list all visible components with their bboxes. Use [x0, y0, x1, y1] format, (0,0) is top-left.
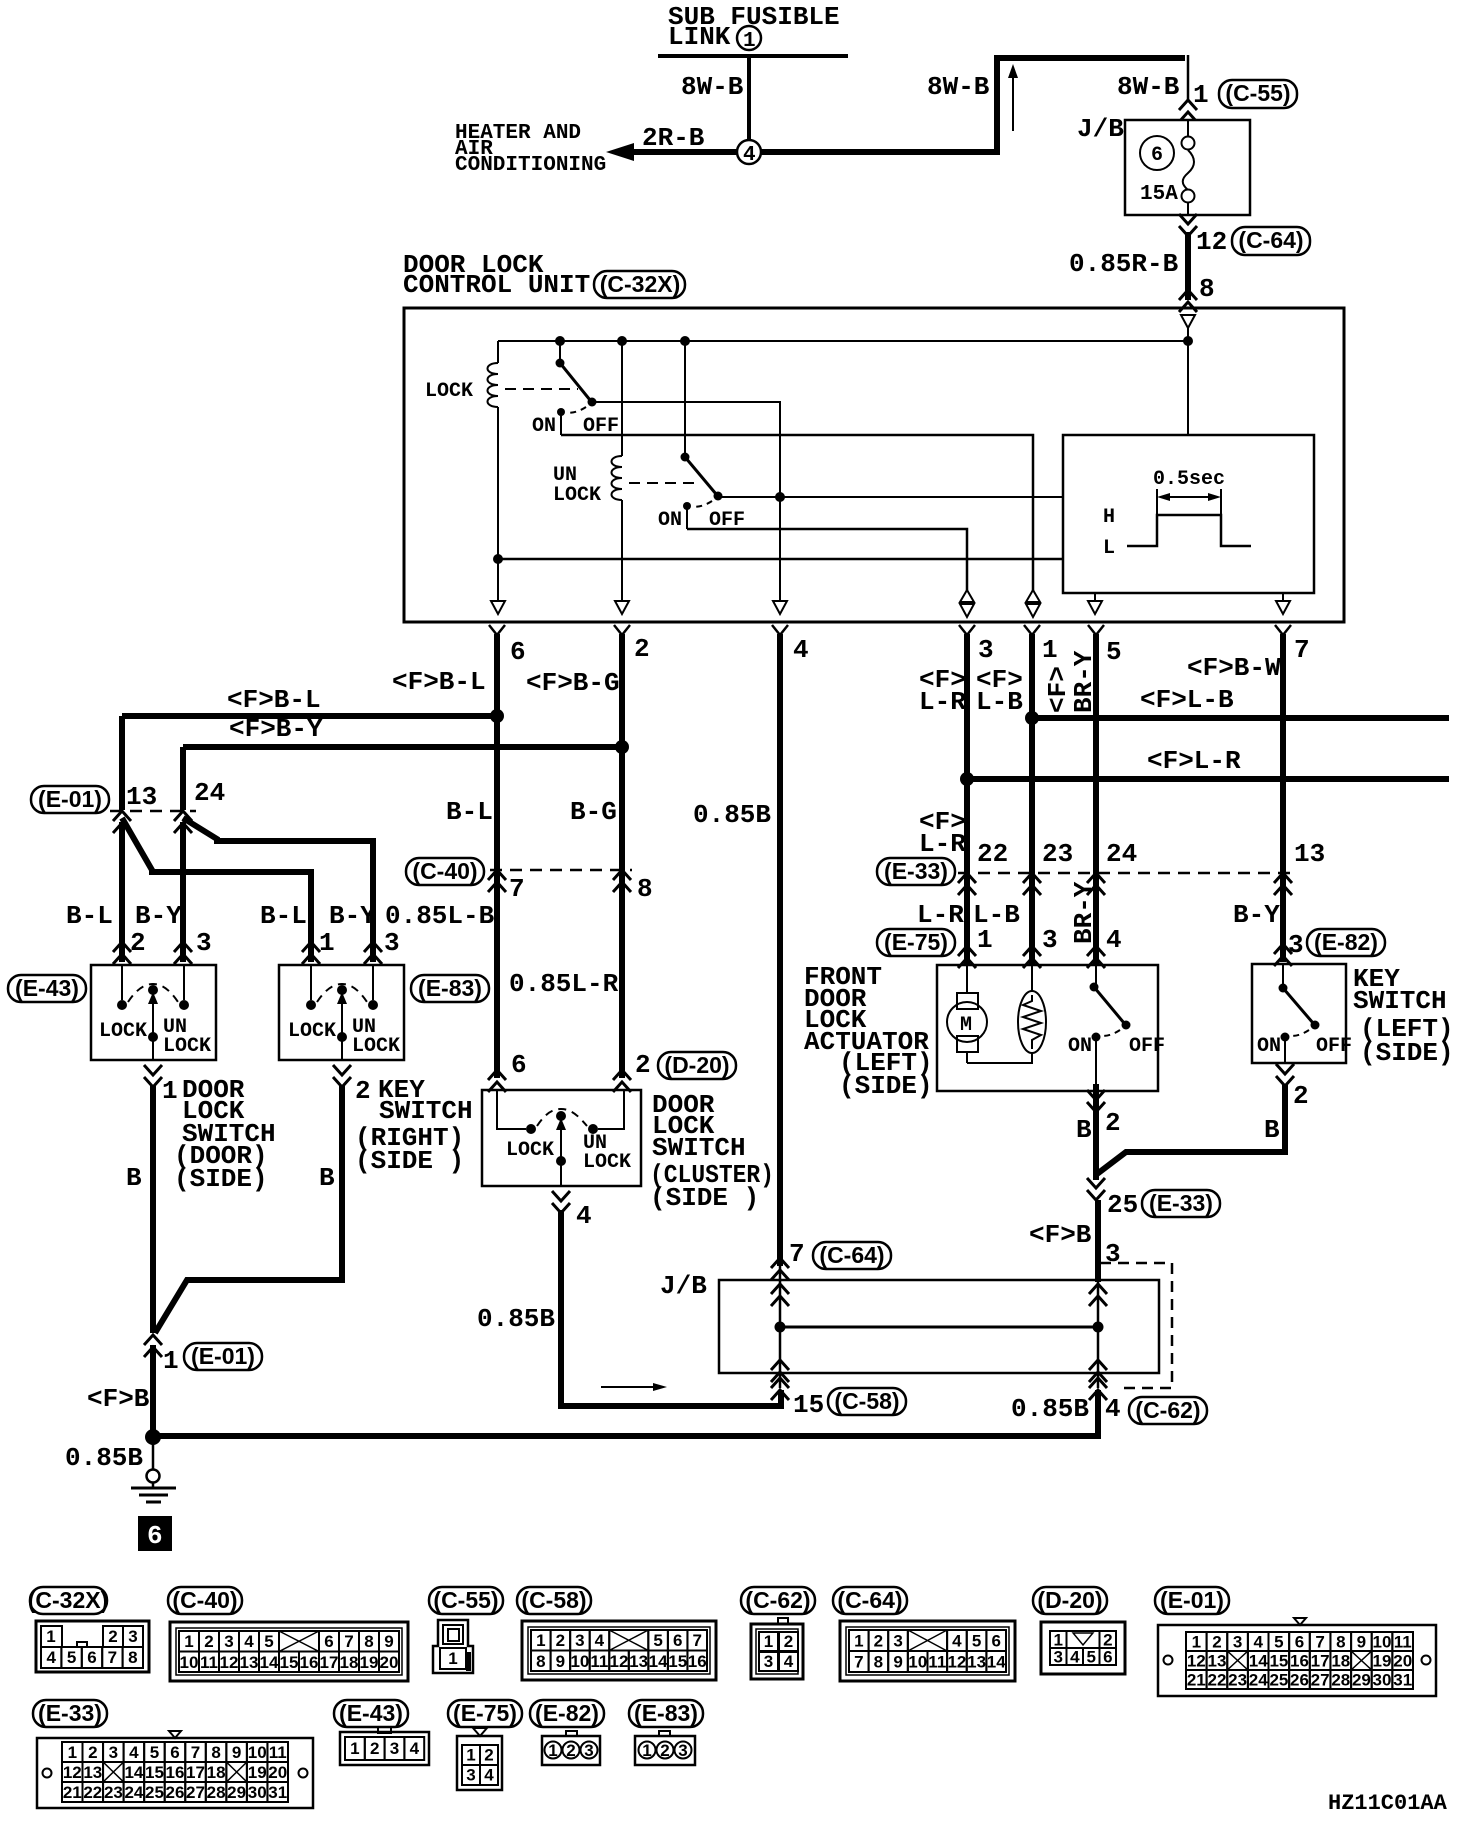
svg-text:B: B — [1264, 1115, 1280, 1145]
svg-text:7: 7 — [191, 1743, 200, 1762]
svg-text:1: 1 — [46, 1627, 55, 1646]
wire OFF2 to timer — [718, 496, 1063, 498]
wire pin4 through J/B — [779, 1266, 782, 1388]
svg-text:LOCK: LOCK — [506, 1139, 554, 1162]
svg-text:(SIDE ): (SIDE ) — [650, 1183, 759, 1213]
pin 2 triangle — [615, 601, 629, 614]
pin 6 fork — [489, 625, 505, 635]
internal bottom rail — [498, 558, 1063, 561]
connector label E-01 top — [31, 786, 109, 813]
svg-text:6: 6 — [673, 1631, 682, 1650]
svg-text:8: 8 — [128, 1648, 137, 1667]
D-20 exit chevron — [552, 1191, 570, 1213]
svg-text:(E-43): (E-43) — [339, 1700, 403, 1726]
svg-text:7: 7 — [789, 1239, 805, 1269]
svg-text:3: 3 — [1105, 1239, 1121, 1269]
E-83 switch contacts — [306, 1000, 316, 1010]
svg-text:9: 9 — [556, 1652, 565, 1671]
wire pin 2 B-G — [619, 634, 625, 1078]
wire 0.85B bottom run — [153, 1390, 1098, 1436]
svg-text:6: 6 — [324, 1632, 333, 1651]
svg-text:B-L: B-L — [66, 901, 113, 931]
internal top rail — [498, 340, 1188, 342]
flow arrow — [601, 1386, 660, 1388]
connector chevron C-40 pin7 — [488, 870, 506, 892]
svg-text:(E-43): (E-43) — [15, 975, 79, 1001]
svg-text:B-Y: B-Y — [1233, 900, 1280, 930]
svg-text:8: 8 — [536, 1652, 545, 1671]
svg-text:6: 6 — [510, 637, 526, 667]
wire pin 4 0.85B — [777, 634, 783, 1266]
svg-text:30: 30 — [1373, 1671, 1392, 1690]
svg-text:(SIDE): (SIDE) — [839, 1071, 933, 1101]
wire B actuator down — [1093, 1084, 1099, 1180]
svg-text:SWITCH: SWITCH — [379, 1096, 473, 1126]
svg-text:4: 4 — [576, 1201, 592, 1231]
pin 4 triangle — [773, 601, 787, 614]
svg-text:L-B: L-B — [976, 687, 1023, 717]
J/B exit chevrons — [771, 1360, 789, 1382]
svg-text:27: 27 — [186, 1783, 205, 1802]
fuse circuit 6 circle — [1140, 136, 1174, 170]
svg-text:14: 14 — [649, 1652, 668, 1671]
pin 2 fork — [614, 625, 630, 635]
wire B-Y 24 to E-83 pin3 — [183, 818, 373, 962]
connector label C-58 mid — [828, 1388, 906, 1415]
svg-text:8W-B: 8W-B — [927, 72, 990, 102]
connector chevron E-01 24 — [174, 811, 192, 833]
svg-text:15A: 15A — [1140, 183, 1178, 206]
svg-text:27: 27 — [1311, 1671, 1330, 1690]
svg-text:(E-33): (E-33) — [1149, 1190, 1213, 1216]
svg-text:3: 3 — [584, 1741, 593, 1760]
connector chevron C-55 — [1179, 100, 1197, 122]
svg-text:1: 1 — [319, 928, 335, 958]
svg-text:14: 14 — [124, 1763, 143, 1782]
svg-text:20: 20 — [380, 1653, 399, 1672]
svg-text:20: 20 — [268, 1763, 287, 1782]
svg-text:18: 18 — [1331, 1652, 1350, 1671]
svg-text:17: 17 — [186, 1763, 205, 1782]
svg-text:<F>B-W: <F>B-W — [1187, 653, 1281, 683]
actuator common wire — [1095, 1037, 1097, 1091]
svg-text:2: 2 — [660, 1741, 669, 1760]
motor M — [957, 993, 978, 1009]
svg-text:(D-20): (D-20) — [664, 1052, 729, 1078]
D-20 switch common arm — [556, 1118, 566, 1130]
svg-text:6: 6 — [147, 1521, 163, 1551]
svg-text:4: 4 — [244, 1632, 254, 1651]
pin 1 fork — [1024, 625, 1040, 635]
connector label E-75 — [877, 929, 955, 956]
svg-text:12: 12 — [63, 1763, 82, 1782]
connector label C-55 — [1219, 80, 1297, 108]
svg-text:3: 3 — [466, 1766, 475, 1785]
key switch right side box E-83 — [279, 965, 404, 1060]
E-83 switch pivot — [337, 985, 347, 995]
connector chevrons D-20 pins — [488, 1070, 506, 1092]
connector label E-82 — [1307, 929, 1385, 956]
svg-text:3: 3 — [978, 635, 994, 665]
svg-text:3: 3 — [1053, 1648, 1062, 1667]
svg-text:(C-32X): (C-32X) — [28, 1587, 109, 1613]
svg-text:7: 7 — [854, 1653, 863, 1672]
svg-text:4: 4 — [1105, 1394, 1121, 1424]
svg-text:15: 15 — [145, 1763, 164, 1782]
connector chevrons E-33 — [958, 873, 976, 895]
svg-text:1: 1 — [977, 925, 993, 955]
svg-text:9: 9 — [384, 1632, 393, 1651]
svg-text:23: 23 — [1042, 839, 1073, 869]
svg-text:13: 13 — [629, 1652, 648, 1671]
svg-text:CONDITIONING: CONDITIONING — [455, 154, 606, 177]
connector label C-64 gallery — [833, 1587, 907, 1614]
wire B-L 13 to E-43 pin2 — [119, 822, 125, 962]
svg-text:7: 7 — [509, 874, 525, 904]
dashed connector line E-33 — [958, 872, 1292, 875]
svg-text:(C-62): (C-62) — [1135, 1397, 1200, 1423]
E-43 switch contacts — [117, 1000, 127, 1010]
svg-text:7: 7 — [1294, 635, 1310, 665]
svg-text:12: 12 — [1187, 1652, 1206, 1671]
svg-text:5: 5 — [1086, 1648, 1095, 1667]
svg-text:0.85B: 0.85B — [65, 1443, 143, 1473]
connector label C-64 — [1232, 227, 1310, 255]
connector label C-32X — [594, 271, 685, 298]
svg-text:2: 2 — [370, 1739, 379, 1758]
svg-text:ON: ON — [658, 509, 682, 532]
svg-text:3: 3 — [893, 1632, 902, 1651]
connector chevron C-64 pin7 — [771, 1258, 789, 1280]
wire B key switch to join — [1097, 1084, 1285, 1174]
svg-text:19: 19 — [360, 1653, 379, 1672]
door lock switch door side box E-43 — [91, 965, 216, 1060]
dashed connector line E-01 — [110, 810, 196, 813]
svg-text:14: 14 — [1249, 1652, 1268, 1671]
svg-text:1: 1 — [1042, 635, 1058, 665]
svg-text:(C-58): (C-58) — [834, 1388, 899, 1414]
pin 7 fork — [1275, 625, 1291, 635]
SEC_MID2 — [804, 807, 1454, 1282]
svg-text:2: 2 — [108, 1627, 117, 1646]
connector label C-62 mid — [1129, 1397, 1207, 1424]
svg-text:2R-B: 2R-B — [642, 123, 705, 153]
connector E-33 pin grid — [37, 1738, 313, 1808]
svg-text:SWITCH: SWITCH — [1353, 986, 1447, 1016]
dashed connector line C-40 — [490, 869, 632, 872]
svg-text:<F>B-Y: <F>B-Y — [229, 714, 323, 744]
connector label D-20 gallery — [1033, 1587, 1107, 1614]
svg-text:(E-01): (E-01) — [191, 1343, 255, 1369]
svg-text:1: 1 — [448, 1649, 457, 1668]
connector chevron E-01 13 — [113, 811, 131, 833]
svg-text:8: 8 — [364, 1632, 373, 1651]
svg-text:25: 25 — [1269, 1671, 1288, 1690]
svg-text:(E-75): (E-75) — [884, 929, 948, 955]
svg-text:19: 19 — [248, 1763, 267, 1782]
svg-text:OFF: OFF — [1129, 1035, 1165, 1058]
svg-text:28: 28 — [1331, 1671, 1350, 1690]
svg-text:B-L: B-L — [260, 901, 307, 931]
junction circle 4 — [737, 140, 761, 164]
connector label C-40 — [406, 858, 484, 885]
connector E-82 pin grid — [566, 1731, 577, 1736]
svg-text:12: 12 — [947, 1653, 966, 1672]
current direction arrow — [1012, 74, 1014, 131]
svg-text:M: M — [960, 1014, 972, 1037]
svg-text:4: 4 — [595, 1631, 605, 1650]
svg-text:2: 2 — [1212, 1633, 1221, 1652]
svg-text:3: 3 — [678, 1741, 687, 1760]
svg-text:4: 4 — [129, 1743, 139, 1762]
svg-text:12: 12 — [610, 1652, 629, 1671]
wire B from E-83 to E-01 — [155, 1085, 342, 1333]
svg-text:(E-01): (E-01) — [38, 786, 102, 812]
svg-text:J/B: J/B — [660, 1271, 707, 1301]
svg-text:4: 4 — [743, 144, 756, 167]
svg-text:2: 2 — [88, 1743, 97, 1762]
connector C-62 pin grid — [778, 1618, 788, 1624]
dashed actuation link LOCK — [505, 388, 578, 390]
svg-text:8: 8 — [1199, 274, 1215, 304]
svg-text:1: 1 — [466, 1746, 475, 1765]
svg-text:5: 5 — [67, 1648, 76, 1667]
fuse symbol — [1187, 120, 1189, 137]
svg-text:2: 2 — [566, 1741, 575, 1760]
svg-text:2: 2 — [204, 1632, 213, 1651]
key switch common wire — [1284, 1037, 1286, 1063]
connector chevrons E-75 — [958, 946, 976, 968]
svg-text:4: 4 — [793, 635, 809, 665]
wire OFF line to pin 4 — [592, 402, 780, 600]
key switch blade — [1279, 984, 1288, 993]
front door lock actuator box — [937, 965, 1158, 1091]
connector label E-83 gallery — [629, 1700, 703, 1727]
connector label E-33 lower — [1142, 1190, 1220, 1217]
svg-text:22: 22 — [83, 1783, 102, 1802]
svg-text:29: 29 — [1352, 1671, 1371, 1690]
svg-text:(E-75): (E-75) — [453, 1700, 517, 1726]
svg-text:J/B: J/B — [1077, 114, 1124, 144]
svg-text:4: 4 — [410, 1739, 420, 1758]
ground wire stem — [152, 1437, 155, 1470]
svg-text:(C-64): (C-64) — [819, 1242, 884, 1268]
svg-text:4: 4 — [952, 1632, 962, 1651]
actuator resistor wire — [1031, 965, 1033, 991]
svg-text:13: 13 — [83, 1763, 102, 1782]
wire B-L 13 to E-83 pin1 — [122, 818, 311, 962]
wire (F)B down to J/B — [1095, 1200, 1101, 1282]
svg-text:11: 11 — [269, 1743, 287, 1762]
svg-text:3: 3 — [1042, 925, 1058, 955]
junction block box — [719, 1280, 1159, 1373]
connector E-83 pin grid — [659, 1731, 670, 1736]
timer box — [1063, 435, 1314, 593]
svg-text:1: 1 — [162, 1076, 178, 1106]
key switch exit chevron — [1276, 1064, 1294, 1086]
actuator exit chevron — [1087, 1090, 1105, 1112]
pin 5 fork — [1088, 625, 1104, 635]
svg-text:2: 2 — [556, 1631, 565, 1650]
svg-text:1: 1 — [1193, 80, 1209, 110]
svg-text:0.85B: 0.85B — [477, 1304, 555, 1334]
svg-text:2: 2 — [484, 1746, 493, 1765]
svg-text:5: 5 — [1106, 637, 1122, 667]
svg-text:(C-55): (C-55) — [1225, 80, 1290, 106]
svg-text:4: 4 — [46, 1648, 56, 1667]
svg-text:10: 10 — [570, 1652, 589, 1671]
wire B from E-43 to E-01 — [150, 1085, 156, 1333]
svg-text:1: 1 — [1192, 1633, 1201, 1652]
svg-text:22: 22 — [977, 839, 1008, 869]
svg-text:1: 1 — [163, 1346, 179, 1376]
svg-text:10: 10 — [248, 1743, 267, 1762]
svg-text:25: 25 — [1107, 1190, 1138, 1220]
connector E-43 pin grid — [378, 1727, 391, 1733]
svg-text:(C-58): (C-58) — [521, 1587, 586, 1613]
door lock control unit U1 box — [404, 308, 1344, 622]
connector label C-55 gallery — [429, 1587, 503, 1614]
svg-text:(C-64): (C-64) — [837, 1587, 902, 1613]
svg-text:3: 3 — [224, 1632, 233, 1651]
svg-text:20: 20 — [1393, 1652, 1412, 1671]
svg-text:(E-83): (E-83) — [634, 1700, 698, 1726]
svg-text:17: 17 — [320, 1653, 339, 1672]
motor to resistor link — [967, 1053, 1032, 1063]
svg-text:6: 6 — [170, 1743, 179, 1762]
svg-text:LOCK: LOCK — [163, 1035, 211, 1058]
svg-text:0.5sec: 0.5sec — [1153, 468, 1225, 491]
J/B internal rail — [780, 1326, 1098, 1329]
svg-text:13: 13 — [967, 1653, 986, 1672]
actuator switch — [1090, 983, 1099, 992]
svg-text:LOCK: LOCK — [288, 1020, 336, 1043]
svg-text:5: 5 — [972, 1632, 981, 1651]
wire pin 5 BR-Y — [1093, 634, 1099, 966]
connector label E-83 — [411, 975, 489, 1002]
wire 8W-B junction4 to J/B — [761, 58, 1185, 152]
svg-text:10: 10 — [180, 1653, 199, 1672]
svg-text:8: 8 — [1336, 1633, 1345, 1652]
svg-text:B-L: B-L — [446, 797, 493, 827]
E-43 exit chevron — [144, 1065, 162, 1087]
ground symbol — [147, 1470, 160, 1483]
wire pin 3 L-R — [964, 634, 970, 966]
svg-text:26: 26 — [1290, 1671, 1309, 1690]
svg-text:L-R: L-R — [919, 829, 966, 859]
connector chevrons E-43 pins — [113, 942, 131, 964]
svg-text:<F>L-R: <F>L-R — [1147, 746, 1241, 776]
connector chevron E-82 — [1274, 944, 1292, 966]
svg-text:23: 23 — [1228, 1671, 1247, 1690]
J/B fuse box — [1125, 120, 1250, 215]
svg-text:16: 16 — [166, 1763, 185, 1782]
svg-text:6: 6 — [511, 1050, 527, 1080]
svg-text:15: 15 — [668, 1652, 687, 1671]
svg-text:17: 17 — [1311, 1652, 1330, 1671]
svg-text:16: 16 — [300, 1653, 319, 1672]
svg-text:0.85R-B: 0.85R-B — [1069, 249, 1179, 279]
door lock switch cluster side box D-20 — [482, 1090, 641, 1186]
svg-text:5: 5 — [1274, 1633, 1283, 1652]
resistor in oval — [1018, 991, 1046, 1053]
svg-text:2: 2 — [355, 1076, 371, 1106]
svg-text:11: 11 — [928, 1653, 946, 1672]
svg-text:24: 24 — [194, 778, 225, 808]
wire 0.85B from D-20 to J/B 15 — [561, 1210, 781, 1406]
connector label C-40 gallery — [168, 1587, 242, 1614]
wire 3 through J/B — [1097, 1266, 1100, 1388]
connector label E-33 gallery — [33, 1700, 107, 1727]
fusible link bus bar — [658, 54, 848, 58]
svg-text:10: 10 — [1373, 1633, 1392, 1652]
connector C-58 pin grid — [522, 1621, 716, 1680]
svg-text:2: 2 — [874, 1632, 883, 1651]
ground number box 6 — [138, 1516, 172, 1551]
key switch left side box E-82 — [1252, 964, 1346, 1063]
actuator switch wire — [1095, 965, 1097, 987]
E-43 switch wires — [121, 965, 123, 1000]
svg-text:2: 2 — [1105, 1108, 1121, 1138]
svg-text:<F>B-L: <F>B-L — [227, 685, 321, 715]
svg-text:6: 6 — [1151, 144, 1163, 167]
timer pulse waveform — [1127, 515, 1251, 546]
svg-text:3: 3 — [1288, 930, 1304, 960]
svg-text:3: 3 — [384, 928, 400, 958]
svg-text:9: 9 — [232, 1743, 241, 1762]
D-20 switch wires — [497, 1090, 526, 1129]
connector label E-01 gallery — [1155, 1587, 1229, 1614]
svg-text:1: 1 — [350, 1739, 359, 1758]
svg-text:11: 11 — [200, 1653, 218, 1672]
svg-text:B: B — [126, 1163, 142, 1193]
connector label D-20 — [658, 1052, 736, 1079]
svg-text:11: 11 — [590, 1652, 608, 1671]
dashed actuation link UNLOCK — [629, 482, 700, 484]
connector chevron C-40 pin8 — [613, 870, 631, 892]
connector E-01 pin grid — [1158, 1625, 1436, 1696]
svg-text:B-Y: B-Y — [329, 901, 376, 931]
svg-text:24: 24 — [1106, 839, 1137, 869]
svg-text:3: 3 — [109, 1743, 118, 1762]
svg-text:6: 6 — [991, 1632, 1000, 1651]
svg-text:5: 5 — [653, 1631, 662, 1650]
connector label E-75 gallery — [448, 1700, 522, 1727]
svg-text:HZ11C01AA: HZ11C01AA — [1328, 1791, 1448, 1816]
svg-text:4: 4 — [784, 1652, 794, 1671]
svg-text:16: 16 — [688, 1652, 707, 1671]
svg-text:(E-82): (E-82) — [1314, 929, 1378, 955]
svg-text:22: 22 — [1208, 1671, 1227, 1690]
pin 6 triangle — [491, 601, 505, 614]
svg-text:4: 4 — [1253, 1633, 1263, 1652]
svg-text:6: 6 — [87, 1648, 96, 1667]
svg-text:7: 7 — [692, 1631, 701, 1650]
svg-text:5: 5 — [150, 1743, 159, 1762]
svg-text:7: 7 — [108, 1648, 117, 1667]
svg-text:8: 8 — [211, 1743, 220, 1762]
svg-text:<F>B-L: <F>B-L — [392, 667, 486, 697]
UNLOCK relay switch — [684, 341, 686, 457]
svg-text:4: 4 — [1070, 1648, 1080, 1667]
svg-text:13: 13 — [1294, 839, 1325, 869]
SEC_RIGHT2 — [28, 1587, 1448, 1816]
svg-text:LOCK: LOCK — [583, 1151, 631, 1174]
svg-text:(E-33): (E-33) — [38, 1700, 102, 1726]
svg-text:CONTROL UNIT: CONTROL UNIT — [403, 270, 590, 300]
svg-text:23: 23 — [104, 1783, 123, 1802]
connector chevron pin 8 — [1179, 290, 1197, 312]
